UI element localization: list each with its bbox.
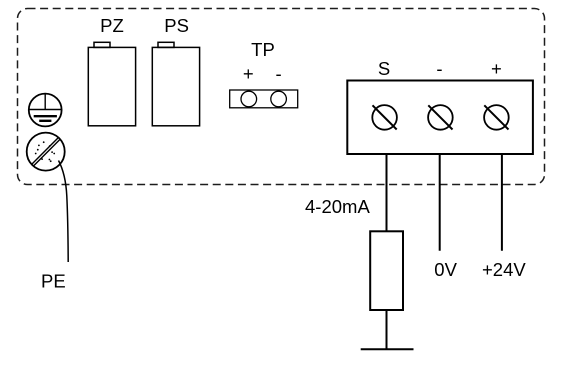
svg-text:+: + [491, 58, 502, 79]
svg-text:S: S [378, 58, 390, 79]
svg-text:4-20mA: 4-20mA [305, 196, 370, 217]
svg-text:TP: TP [251, 39, 275, 60]
svg-text:+: + [243, 63, 254, 84]
svg-text:+24V: +24V [482, 259, 526, 280]
svg-text:0V: 0V [434, 259, 457, 280]
svg-text:PZ: PZ [100, 15, 124, 36]
svg-text:-: - [276, 63, 282, 84]
svg-text:-: - [436, 58, 442, 79]
svg-text:PS: PS [164, 15, 189, 36]
svg-text:PE: PE [41, 271, 66, 292]
